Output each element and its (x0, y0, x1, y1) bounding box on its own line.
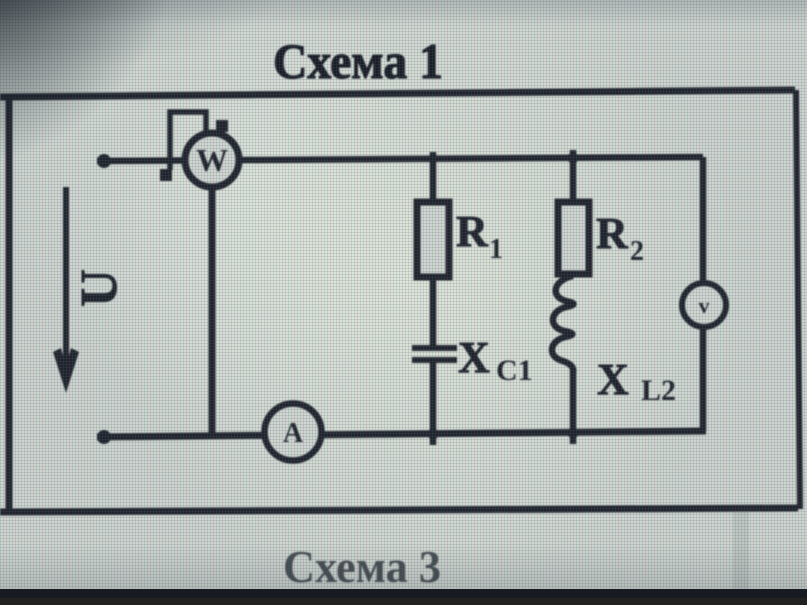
wattmeter polarity mark (bottom-left) (160, 169, 172, 181)
wire: R1 to C1 (430, 277, 437, 348)
paper shadow streak (733, 512, 749, 590)
ammeter A (265, 404, 322, 461)
wire: wattmeter branch down (209, 186, 216, 436)
wire: C1 to bottom bus (430, 363, 437, 445)
node: bottom-left terminal (97, 430, 111, 444)
wattmeter W (185, 133, 239, 187)
wire: L2 to bottom bus (570, 368, 577, 444)
frame top border (0, 90, 795, 97)
wire: R1 branch top stub (430, 152, 437, 204)
frame left border (6, 97, 13, 511)
arrow: source voltage direction (63, 187, 69, 380)
wire: R2 branch top stub (570, 150, 577, 204)
wattmeter polarity mark (top) (216, 120, 228, 132)
frame right border (796, 90, 800, 509)
node: C1 junction (428, 429, 439, 440)
wire: right bus (700, 157, 707, 431)
capacitor C1 (412, 345, 457, 351)
wire: top bus (97, 157, 703, 161)
node: R2 top junction (568, 153, 579, 164)
voltmeter V (682, 283, 726, 327)
bottom dark bar (0, 589, 807, 598)
wire: bottom bus (97, 431, 706, 437)
wattmeter U1 voltage-coil bracket (170, 112, 206, 170)
inductor L2 coil (552, 276, 574, 373)
node: L2 bottom junction (568, 428, 579, 439)
node: top-left terminal (97, 154, 111, 168)
resistor R2 (558, 202, 589, 274)
resistor R1 (417, 202, 449, 277)
frame bottom border (0, 508, 798, 512)
